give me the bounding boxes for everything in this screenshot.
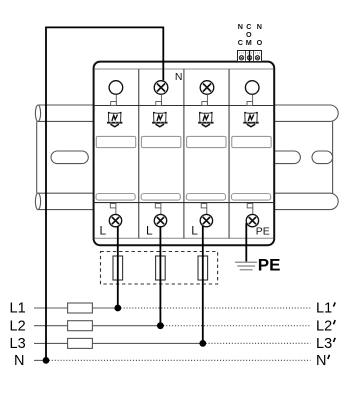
- svg-text:O: O: [257, 38, 263, 47]
- svg-text:M: M: [246, 38, 252, 47]
- svg-text:N: N: [14, 353, 24, 369]
- svg-text:L1: L1: [316, 301, 332, 317]
- svg-text:L: L: [146, 224, 153, 238]
- svg-text:PE: PE: [256, 225, 270, 237]
- svg-text:L2: L2: [316, 318, 332, 334]
- svg-text:L: L: [100, 224, 107, 238]
- svg-text:L: L: [191, 224, 198, 238]
- svg-text:C: C: [238, 38, 243, 47]
- svg-text:L3: L3: [10, 336, 26, 352]
- svg-text:N: N: [175, 71, 183, 83]
- svg-text:L3: L3: [316, 336, 332, 352]
- svg-text:L2: L2: [10, 318, 26, 334]
- svg-text:L1: L1: [10, 301, 26, 317]
- svg-text:PE: PE: [258, 256, 281, 275]
- svg-text:N: N: [257, 22, 262, 31]
- svg-text:N: N: [238, 22, 243, 31]
- svg-text:N: N: [316, 353, 326, 369]
